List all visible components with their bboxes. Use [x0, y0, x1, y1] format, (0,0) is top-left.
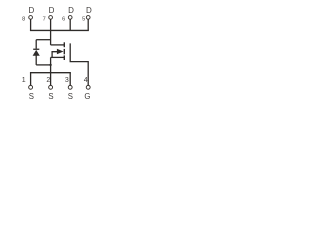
wire diode anode link to source: [36, 64, 50, 66]
pin 7 terminal circle: [49, 16, 53, 20]
wire pin8 to top bus: [30, 19, 32, 30]
wire bottom bus (source net): [30, 72, 71, 74]
wire pin7/drain vertical through top bus down to drain corner: [50, 19, 52, 45]
wire gate bar and gate lead: [70, 43, 88, 85]
svg-text:3: 3: [65, 77, 69, 84]
pin 6 terminal circle: [68, 16, 72, 20]
pin 5 terminal circle: [86, 16, 90, 20]
svg-text:D: D: [68, 6, 74, 15]
svg-text:D: D: [86, 6, 92, 15]
svg-text:D: D: [29, 6, 35, 15]
svg-text:S: S: [29, 92, 34, 101]
wire diode cathode riser: [35, 40, 37, 49]
wire body tap riser: [52, 52, 57, 58]
pin 2 terminal circle: [49, 85, 53, 89]
wire pin3 to bottom bus: [69, 73, 71, 86]
svg-text:7: 7: [43, 16, 46, 22]
MOSFET Q1 channel middle segment: [63, 49, 65, 54]
body diode D1 cathode bar: [33, 48, 39, 50]
body diode D1 anode triangle: [33, 50, 40, 56]
svg-text:5: 5: [82, 16, 85, 22]
wire drain horizontal to channel: [51, 44, 65, 46]
svg-text:G: G: [84, 92, 90, 101]
pin 8 terminal circle: [29, 16, 33, 20]
wire top bus (drain net): [30, 29, 89, 31]
svg-text:S: S: [48, 92, 53, 101]
wire diode anode drop: [35, 56, 37, 65]
pin 3 terminal circle: [68, 85, 72, 89]
junction dot diode anode / source: [49, 64, 51, 66]
wire pin5 to top bus: [87, 19, 89, 30]
svg-text:6: 6: [62, 16, 65, 22]
svg-text:1: 1: [22, 77, 26, 84]
wire pin6 to top bus: [69, 19, 71, 30]
svg-text:D: D: [49, 6, 55, 15]
pin 4 terminal circle: [86, 85, 90, 89]
MOSFET Q1 channel bottom segment: [63, 55, 65, 60]
svg-text:2: 2: [46, 77, 50, 84]
svg-text:S: S: [68, 92, 73, 101]
svg-text:4: 4: [84, 77, 88, 84]
MOSFET Q1 body arrow: [57, 49, 64, 55]
wire source vertical through bottom bus to pin2: [50, 57, 52, 85]
pin 1 terminal circle: [29, 85, 33, 89]
wire pin1 to bottom bus: [30, 73, 32, 86]
svg-text:8: 8: [22, 16, 25, 22]
MOSFET Q1 channel top segment: [63, 42, 65, 47]
wire source horizontal from channel: [51, 56, 65, 58]
wire drain tee to diode cathode branch: [36, 39, 50, 41]
